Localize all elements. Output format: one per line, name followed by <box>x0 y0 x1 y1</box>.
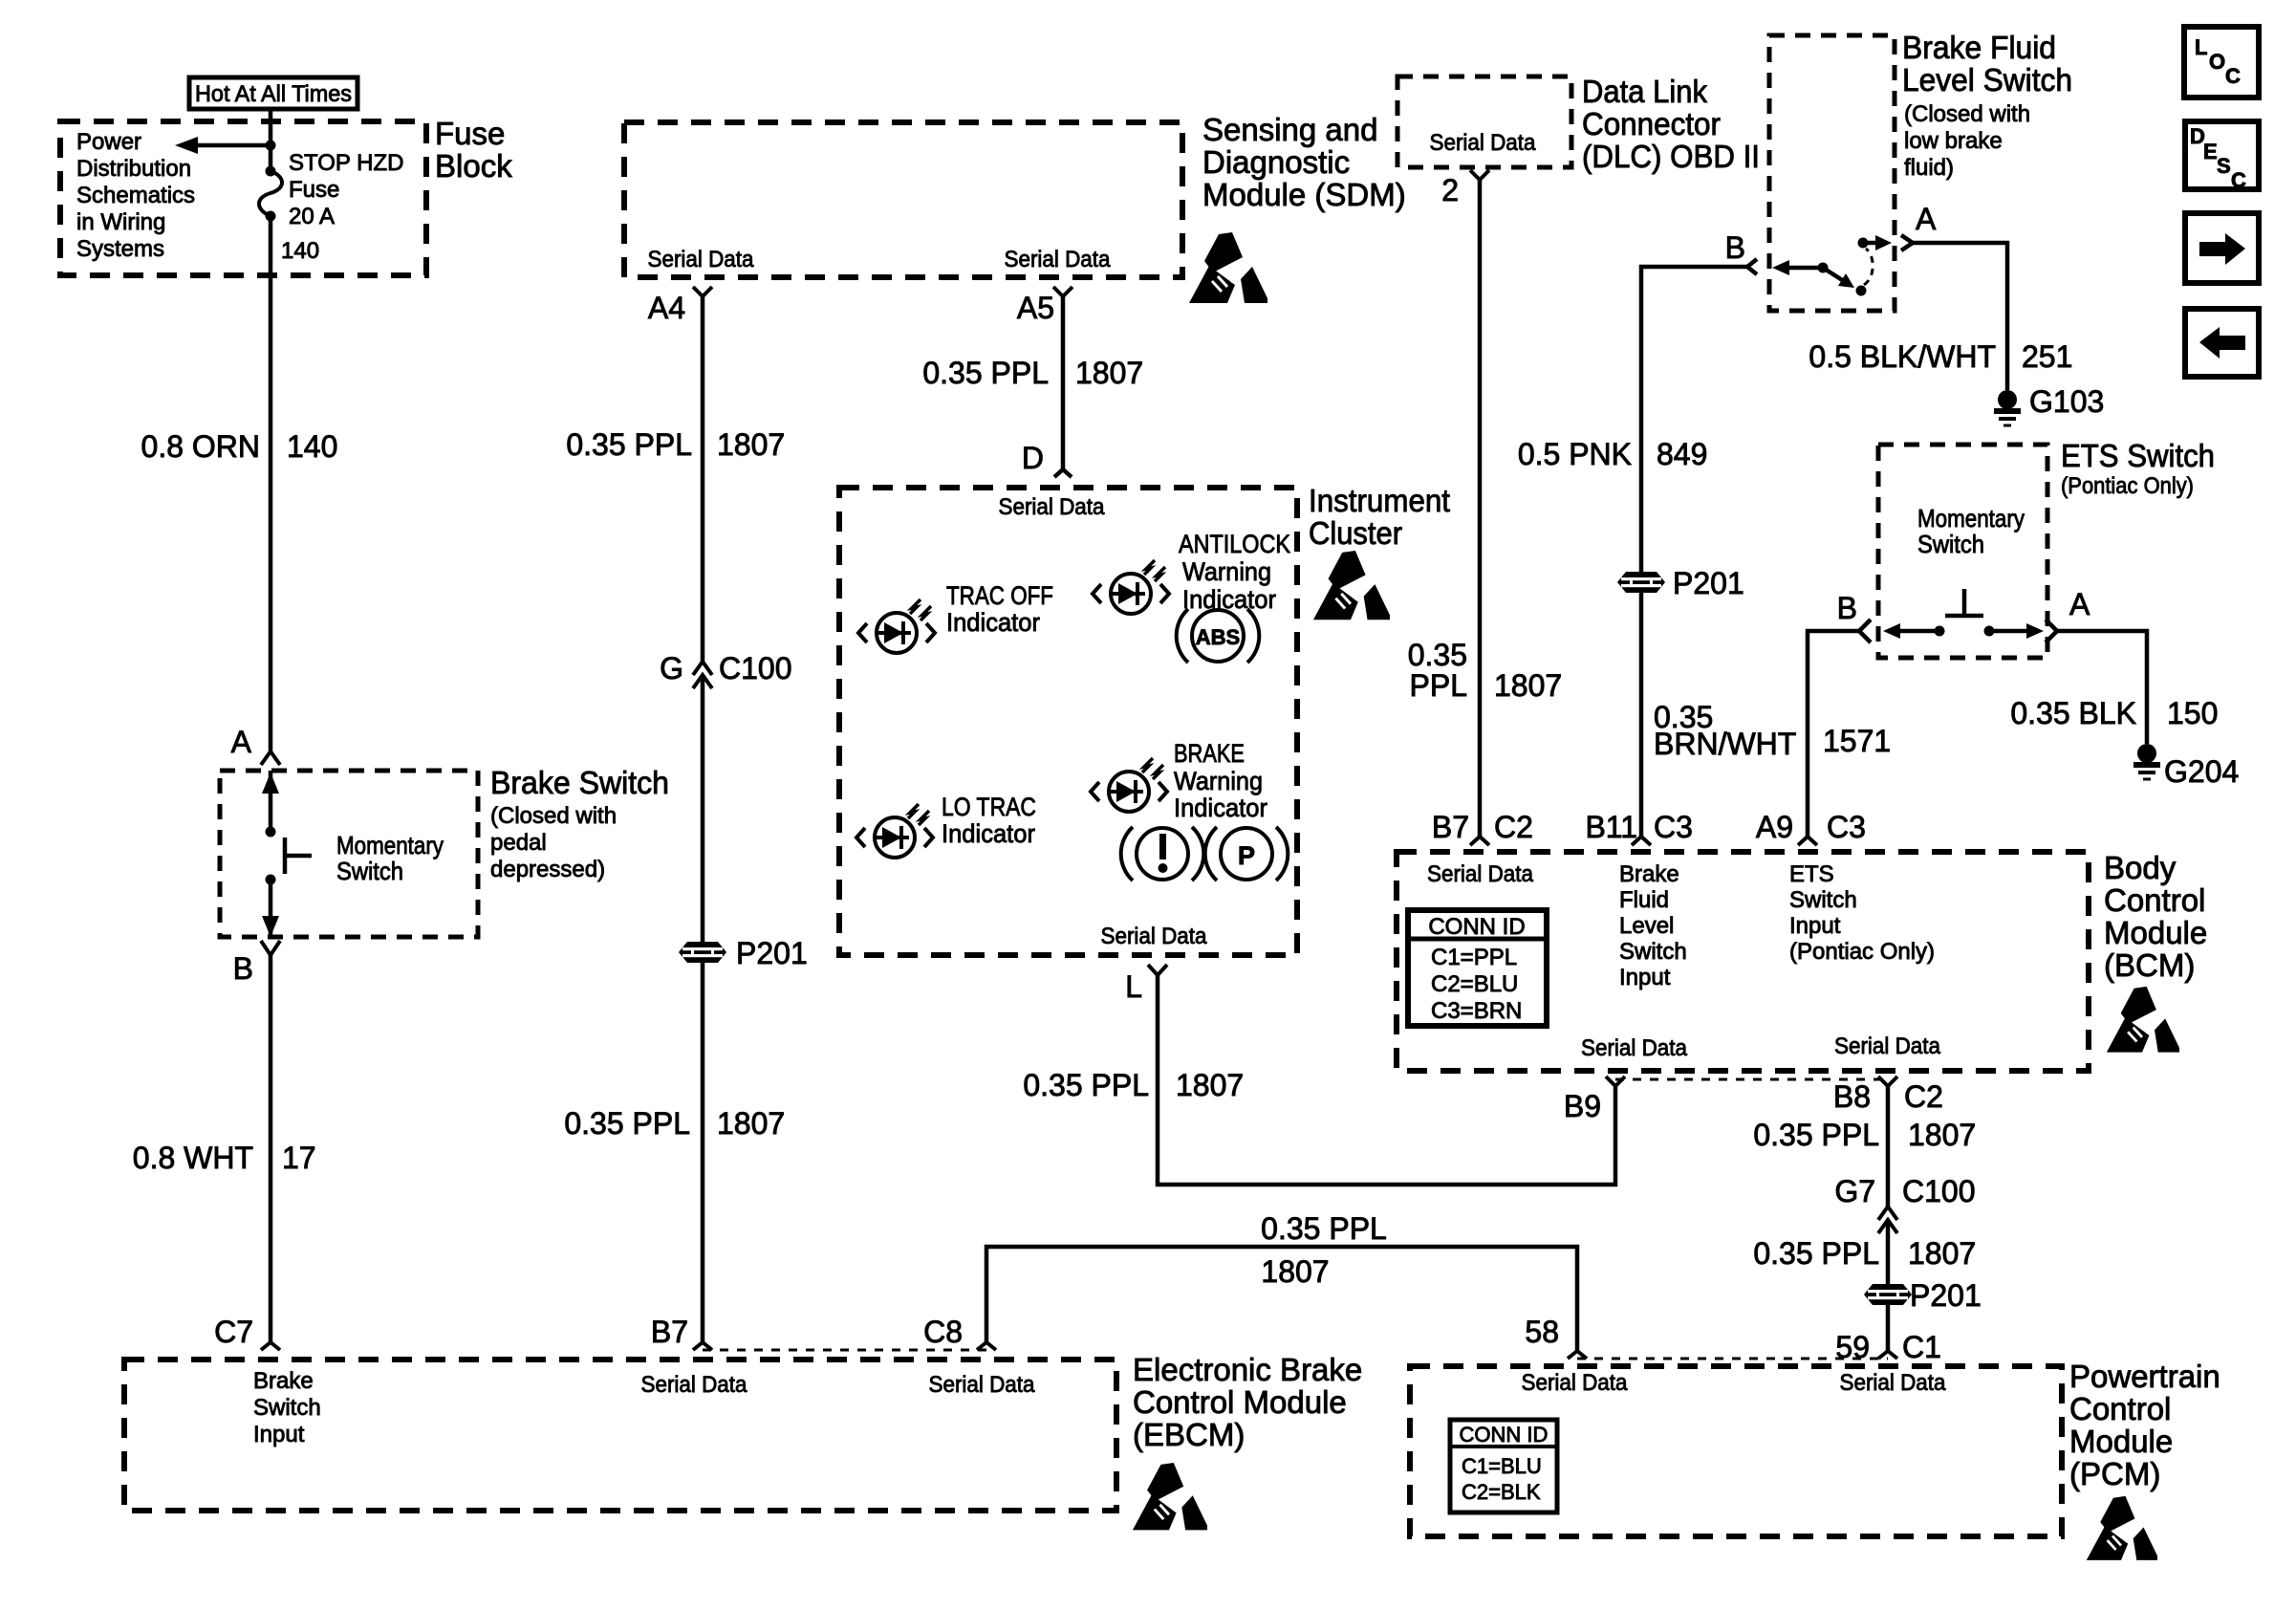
label: 0.35 PPL 1807 on DLC wire <box>1408 638 1562 703</box>
label: Body Control Module (BCM) <box>2104 850 2207 983</box>
pin A of ETS switch <box>2046 587 2090 642</box>
svg-text:G103: G103 <box>2029 384 2104 419</box>
svg-text:1807: 1807 <box>1494 668 1562 703</box>
svg-text:Serial Data: Serial Data <box>1834 1033 1941 1059</box>
svg-text:1807: 1807 <box>1908 1118 1976 1152</box>
internal serial data bus of BCM <box>1615 1078 1886 1081</box>
back arrow navigation icon <box>2185 309 2259 377</box>
svg-text:0.8 WHT: 0.8 WHT <box>133 1141 253 1175</box>
label: Powertrain Control Module (PCM) <box>2069 1359 2220 1491</box>
svg-text:0.35 PPL: 0.35 PPL <box>1753 1236 1879 1271</box>
svg-text:A: A <box>1916 202 1937 236</box>
svg-text:1807: 1807 <box>1261 1254 1329 1289</box>
svg-text:(EBCM): (EBCM) <box>1133 1417 1245 1452</box>
pin C7 of EBCM <box>214 1315 280 1350</box>
wire: 0.5 PNK 849 from level switch B to BCM pin B11 <box>1641 267 1747 837</box>
park brake telltale symbol <box>1205 827 1289 881</box>
CONN ID table of BCM <box>1408 910 1547 1026</box>
instrument cluster dashed box <box>839 488 1297 955</box>
svg-text:C7: C7 <box>214 1315 253 1349</box>
svg-text:A9: A9 <box>1756 810 1793 844</box>
svg-text:D: D <box>1022 441 1044 475</box>
svg-text:pedal: pedal <box>490 830 547 856</box>
wire: 0.35 PPL 1807 from SDM A4 to C100 <box>701 296 705 662</box>
label: 0.35 PPL 1807 below P201 <box>564 1106 785 1141</box>
pin B of ETS switch <box>1837 591 1871 642</box>
pin C8 of EBCM <box>923 1315 996 1350</box>
internal serial data bus of EBCM <box>703 1349 986 1352</box>
label: Brake Fluid Level Switch Input <box>1619 861 1687 990</box>
svg-text:Brake: Brake <box>1619 861 1679 887</box>
arrow to Power Distribution Schematics reference <box>175 137 271 154</box>
momentary contacts of ETS switch <box>1883 589 2044 639</box>
wire: 0.35 PPL 1807 from DLC pin 2 to BCM pin B7 <box>1478 180 1483 837</box>
svg-text:Distribution: Distribution <box>76 156 191 182</box>
label: 0.5 PNK 849 <box>1518 437 1708 471</box>
svg-text:C3: C3 <box>1827 810 1866 844</box>
pin A of brake switch <box>231 725 280 765</box>
label: ANTILOCK Warning Indicator <box>1179 530 1290 614</box>
pin A5 of SDM <box>1017 287 1072 325</box>
svg-text:Powertrain: Powertrain <box>2069 1359 2220 1394</box>
svg-text:Serial Data: Serial Data <box>648 247 755 272</box>
svg-text:O: O <box>2209 50 2225 74</box>
label: 0.35 PPL 1807 below B8 <box>1753 1118 1976 1152</box>
svg-text:Switch: Switch <box>1789 887 1857 913</box>
pin L of instrument cluster <box>1125 965 1167 1004</box>
svg-text:Input: Input <box>253 1422 305 1447</box>
DLC dashed box <box>1397 76 1571 167</box>
wire: 0.35 PPL 1807 from EBCM C8 to PCM pin 58 <box>986 1247 1577 1351</box>
svg-text:Indicator: Indicator <box>946 608 1040 637</box>
forward arrow navigation icon <box>2185 213 2259 283</box>
svg-text:Fluid: Fluid <box>1619 887 1669 913</box>
svg-text:Indicator: Indicator <box>1174 794 1267 822</box>
svg-text:B: B <box>233 951 253 986</box>
svg-text:Serial Data: Serial Data <box>1427 861 1534 887</box>
wire: 0.35 PPL 1807 from BCM B8 to C100 pin G7 <box>1886 1086 1891 1207</box>
svg-text:C: C <box>2225 64 2241 88</box>
svg-text:Level Switch: Level Switch <box>1902 62 2072 98</box>
label: TRAC OFF Indicator <box>946 581 1053 637</box>
label: 0.35 BLK 150 <box>2010 696 2218 730</box>
svg-text:0.35 PPL: 0.35 PPL <box>1023 1068 1149 1102</box>
ESD symbol for instrument cluster <box>1313 551 1390 620</box>
connector C100 pin G <box>660 651 791 688</box>
ESD symbol for SDM <box>1189 232 1267 303</box>
svg-text:(DLC) OBD II: (DLC) OBD II <box>1582 139 1760 174</box>
svg-text:L: L <box>2195 35 2207 59</box>
svg-text:Momentary: Momentary <box>336 831 444 859</box>
label: Brake Fluid Level Switch (Closed with low brake fluid) <box>1902 30 2072 181</box>
svg-text:1807: 1807 <box>1176 1068 1244 1102</box>
splice P201 on B8 wire <box>1864 1278 1982 1313</box>
svg-text:Serial Data: Serial Data <box>1005 247 1112 272</box>
svg-text:C3: C3 <box>1654 810 1693 844</box>
label: Data Link Connector (DLC) OBD II <box>1582 74 1760 174</box>
wire: 0.35 PPL 1807 from cluster L to BCM pin B9 <box>1158 975 1615 1185</box>
pin B7 C2 of BCM <box>1432 810 1533 845</box>
svg-text:ETS: ETS <box>1789 861 1834 887</box>
svg-text:1571: 1571 <box>1823 724 1891 758</box>
pin A4 of SDM <box>648 287 712 325</box>
label: Sensing and Diagnostic Module (SDM) <box>1202 112 1406 212</box>
junction node on battery feed <box>266 141 276 151</box>
pin B of brake fluid level switch <box>1725 230 1757 274</box>
svg-text:Switch: Switch <box>253 1395 321 1421</box>
svg-text:Warning: Warning <box>1174 767 1263 795</box>
svg-text:Serial Data: Serial Data <box>999 494 1106 520</box>
svg-text:B9: B9 <box>1564 1089 1601 1123</box>
svg-text:Cluster: Cluster <box>1309 515 1402 551</box>
svg-text:C8: C8 <box>923 1315 963 1349</box>
svg-text:E: E <box>2203 140 2218 163</box>
wire: 0.35 BLK 150 from ETS A to ground G204 <box>2057 631 2147 744</box>
momentary switch contacts in brake switch <box>262 771 312 937</box>
svg-text:Data Link: Data Link <box>1582 74 1707 109</box>
svg-text:Indicator: Indicator <box>1182 585 1276 614</box>
svg-text:0.35 PPL: 0.35 PPL <box>566 427 692 462</box>
label: 0.8 WHT 17 <box>133 1141 316 1175</box>
svg-text:C1: C1 <box>1902 1330 1941 1364</box>
wire: 0.35 PPL 1807 from C100 to PCM pin 59 <box>1886 1220 1891 1351</box>
ESD symbol for PCM <box>2087 1496 2157 1560</box>
label: ETS Switch (Pontiac Only) <box>2061 438 2215 499</box>
CONN ID table of PCM <box>1450 1420 1557 1512</box>
fuse block dashed box <box>60 121 426 275</box>
fuse F1 STOP HZD 20A <box>259 166 282 222</box>
brake fluid level switch dashed box <box>1769 35 1895 311</box>
wire: 0.35 PPL 1807 from SDM A5 to instrument cluster pin D <box>1061 296 1066 469</box>
svg-text:C1=BLU: C1=BLU <box>1462 1454 1542 1478</box>
label: 0.35 BRN/WHT 1571 <box>1654 700 1891 761</box>
label: 0.35 PPL 1807 on A5 wire <box>922 356 1143 390</box>
wire: 0.35 PPL 1807 from C100 to EBCM pin B7 <box>701 675 705 1342</box>
svg-text:Serial Data: Serial Data <box>1840 1370 1947 1396</box>
svg-text:C2=BLK: C2=BLK <box>1462 1480 1541 1504</box>
svg-text:G: G <box>660 651 683 685</box>
svg-text:Module: Module <box>2069 1424 2173 1459</box>
svg-text:depressed): depressed) <box>490 857 605 882</box>
svg-text:STOP HZD: STOP HZD <box>289 150 403 176</box>
label: Power Distribution Schematics in Wiring Systems <box>76 129 195 262</box>
svg-text:C100: C100 <box>1902 1174 1976 1208</box>
svg-text:C100: C100 <box>719 651 792 685</box>
LO TRAC indicator LED <box>856 804 933 858</box>
svg-text:0.35 BLK: 0.35 BLK <box>2010 696 2136 730</box>
pin 2 of DLC <box>1441 170 1489 207</box>
svg-text:140: 140 <box>287 429 337 464</box>
svg-text:BRAKE: BRAKE <box>1174 739 1245 768</box>
svg-text:Switch: Switch <box>336 857 403 885</box>
svg-text:Serial Data: Serial Data <box>641 1372 748 1398</box>
label: BRAKE Warning Indicator <box>1174 739 1267 822</box>
label: Brake Switch Input at EBCM C7 <box>253 1368 321 1447</box>
ESD symbol for BCM <box>2107 987 2179 1053</box>
label: 0.35 PPL 1807 above P201 <box>1753 1236 1976 1271</box>
svg-text:Control: Control <box>2104 882 2205 918</box>
splice P201 on PNK wire <box>1617 566 1744 600</box>
svg-text:Serial Data: Serial Data <box>1430 130 1537 156</box>
svg-text:Fuse: Fuse <box>435 116 505 151</box>
svg-text:Input: Input <box>1619 965 1671 990</box>
label: 0.35 PPL 1807 on A4 wire <box>566 427 785 462</box>
svg-text:0.35 PPL: 0.35 PPL <box>922 356 1049 390</box>
BRAKE warning indicator LED <box>1091 758 1167 812</box>
svg-text:Block: Block <box>435 148 512 184</box>
pin 58 of PCM <box>1525 1315 1587 1359</box>
svg-text:Indicator: Indicator <box>942 819 1035 848</box>
svg-text:ETS Switch: ETS Switch <box>2061 438 2215 473</box>
svg-text:Systems: Systems <box>76 236 164 262</box>
svg-text:150: 150 <box>2167 696 2218 730</box>
svg-text:low brake: low brake <box>1904 128 2003 154</box>
label: STOP HZD Fuse 20 A <box>289 150 403 229</box>
pin B9 of BCM <box>1564 1077 1625 1123</box>
svg-text:TRAC OFF: TRAC OFF <box>946 581 1053 610</box>
svg-text:(Pontiac Only): (Pontiac Only) <box>1789 939 1935 965</box>
svg-text:Brake Fluid: Brake Fluid <box>1902 30 2056 65</box>
svg-text:251: 251 <box>2022 339 2072 374</box>
svg-text:1807: 1807 <box>1075 356 1143 390</box>
connector C100 pin G7 <box>1834 1174 1975 1233</box>
svg-text:0.35: 0.35 <box>1408 638 1467 672</box>
svg-text:Electronic Brake: Electronic Brake <box>1133 1352 1362 1387</box>
pin B7 of EBCM <box>651 1315 712 1350</box>
svg-text:Input: Input <box>1789 913 1841 939</box>
svg-text:Control Module: Control Module <box>1133 1384 1347 1420</box>
PCM dashed box <box>1410 1366 2062 1536</box>
svg-text:fluid): fluid) <box>1904 155 1954 181</box>
wire: 0.8 WHT 17 from brake switch to EBCM pin C7 <box>269 955 273 1342</box>
svg-text:(Pontiac Only): (Pontiac Only) <box>2061 473 2194 499</box>
pin D of instrument cluster <box>1022 441 1072 477</box>
label: 0.8 ORN 140 <box>141 429 338 464</box>
svg-text:1807: 1807 <box>717 1106 785 1141</box>
svg-text:ABS: ABS <box>1196 625 1240 649</box>
label: 0.35 PPL 1807 on C8 wire <box>1261 1211 1387 1289</box>
label: ETS Switch Input (Pontiac Only) <box>1789 861 1935 965</box>
ground G103 <box>1994 384 2104 425</box>
ESD symbol for EBCM <box>1133 1463 1207 1530</box>
svg-text:C3=BRN: C3=BRN <box>1431 998 1522 1024</box>
BCM dashed box <box>1397 852 2089 1071</box>
brake telltale symbol <box>1121 827 1204 881</box>
svg-text:LO TRAC: LO TRAC <box>942 793 1036 821</box>
svg-text:Brake: Brake <box>253 1368 314 1394</box>
svg-text:2: 2 <box>1441 173 1459 207</box>
label: 0.5 BLK/WHT 251 <box>1809 339 2072 374</box>
svg-text:B7: B7 <box>1432 810 1469 844</box>
svg-text:17: 17 <box>282 1141 316 1175</box>
svg-text:B11: B11 <box>1585 810 1637 844</box>
svg-text:Control: Control <box>2069 1391 2171 1426</box>
svg-text:Fuse: Fuse <box>289 177 339 203</box>
ANTILOCK warning indicator LED <box>1093 560 1169 614</box>
label: Instrument Cluster <box>1309 483 1450 551</box>
svg-text:1807: 1807 <box>1908 1236 1976 1271</box>
label: Momentary Switch in ETS switch <box>1917 504 2025 558</box>
svg-text:Switch: Switch <box>1917 530 1984 558</box>
svg-text:Module (SDM): Module (SDM) <box>1202 177 1406 212</box>
svg-text:Momentary: Momentary <box>1917 504 2025 533</box>
ABS telltale symbol <box>1177 609 1260 663</box>
svg-text:Warning: Warning <box>1182 557 1271 586</box>
svg-text:0.35 PPL: 0.35 PPL <box>1753 1118 1879 1152</box>
svg-text:A: A <box>231 725 252 759</box>
svg-text:Serial Data: Serial Data <box>929 1372 1036 1398</box>
svg-text:C2: C2 <box>1494 810 1533 844</box>
svg-text:20 A: 20 A <box>289 204 335 229</box>
ETS switch dashed box <box>1878 445 2047 658</box>
svg-text:0.5 PNK: 0.5 PNK <box>1518 437 1632 471</box>
svg-text:B8: B8 <box>1833 1079 1871 1114</box>
svg-text:G204: G204 <box>2164 754 2239 789</box>
svg-text:Hot At All Times: Hot At All Times <box>195 81 352 107</box>
svg-text:1807: 1807 <box>717 427 785 462</box>
svg-text:C2: C2 <box>1904 1079 1943 1114</box>
svg-text:Serial Data: Serial Data <box>1522 1370 1629 1396</box>
svg-text:0.8 ORN: 0.8 ORN <box>141 429 260 464</box>
svg-text:Sensing and: Sensing and <box>1202 112 1377 147</box>
svg-text:140: 140 <box>281 238 319 264</box>
svg-text:Diagnostic: Diagnostic <box>1202 144 1350 180</box>
label: Electronic Brake Control Module (EBCM) <box>1133 1352 1362 1452</box>
svg-text:CONN ID: CONN ID <box>1428 914 1525 940</box>
wire: 0.5 BLK/WHT 251 from level switch A to ground G103 <box>1913 243 2007 390</box>
pin A of brake fluid level switch <box>1901 202 1937 250</box>
svg-text:0.35 PPL: 0.35 PPL <box>564 1106 690 1141</box>
svg-text:(Closed with: (Closed with <box>490 803 617 829</box>
svg-text:Serial Data: Serial Data <box>1101 924 1208 949</box>
splice P201 on A4 wire <box>679 936 808 970</box>
pin B11 C3 of BCM <box>1585 810 1692 845</box>
svg-text:A5: A5 <box>1017 291 1054 325</box>
svg-text:P: P <box>1238 841 1255 870</box>
svg-text:Module: Module <box>2104 915 2207 950</box>
svg-text:CONN ID: CONN ID <box>1460 1423 1549 1447</box>
svg-text:S: S <box>2217 154 2231 178</box>
label: Momentary Switch <box>336 831 444 885</box>
switch blade contacts of brake fluid level switch <box>1772 235 1892 296</box>
label: Fuse Block <box>435 116 512 184</box>
svg-text:58: 58 <box>1525 1315 1559 1349</box>
svg-text:ANTILOCK: ANTILOCK <box>1179 530 1290 558</box>
svg-text:Serial Data: Serial Data <box>1581 1035 1688 1061</box>
label: Hot At All Times <box>189 77 357 109</box>
svg-text:(Closed with: (Closed with <box>1904 101 2030 127</box>
svg-text:B: B <box>1837 591 1857 625</box>
wire: battery feed from Hot At All Times into fuse block <box>269 107 273 171</box>
pin B8 C2 of BCM <box>1833 1077 1943 1114</box>
svg-text:C1=PPL: C1=PPL <box>1431 945 1517 970</box>
svg-text:(PCM): (PCM) <box>2069 1456 2160 1491</box>
svg-text:G7: G7 <box>1834 1174 1875 1208</box>
svg-text:in Wiring: in Wiring <box>76 209 165 235</box>
wire: 0.35 BRN/WHT 1571 from ETS B to BCM pin A9 <box>1808 631 1859 837</box>
svg-text:P201: P201 <box>1910 1278 1982 1313</box>
svg-text:BRN/WHT: BRN/WHT <box>1654 727 1796 761</box>
internal serial data bus of PCM <box>1577 1358 1888 1360</box>
svg-text:Connector: Connector <box>1582 106 1721 141</box>
svg-text:Body: Body <box>2104 850 2177 885</box>
svg-text:L: L <box>1125 969 1142 1004</box>
svg-text:C: C <box>2231 168 2246 192</box>
wire: 0.8 ORN 140 from fuse to brake switch pin A <box>269 216 273 751</box>
svg-text:P201: P201 <box>1673 566 1744 600</box>
svg-text:Level: Level <box>1619 913 1674 939</box>
TRAC OFF indicator LED <box>858 599 935 653</box>
svg-text:0.5 BLK/WHT: 0.5 BLK/WHT <box>1809 339 1996 374</box>
brake switch S1 dashed box <box>220 771 478 937</box>
svg-text:B: B <box>1725 230 1745 265</box>
pin A9 C3 of BCM <box>1756 810 1866 845</box>
svg-text:PPL: PPL <box>1410 668 1467 703</box>
svg-text:Schematics: Schematics <box>76 183 195 208</box>
label: 0.35 PPL 1807 on L wire <box>1023 1068 1244 1102</box>
EBCM dashed box <box>124 1360 1116 1511</box>
svg-text:A: A <box>2069 587 2090 621</box>
svg-text:Instrument: Instrument <box>1309 483 1450 518</box>
svg-text:A4: A4 <box>648 291 685 325</box>
svg-text:P201: P201 <box>736 936 808 970</box>
pin 59 C1 of PCM <box>1835 1330 1941 1364</box>
pin B of brake switch <box>233 941 280 986</box>
svg-text:(BCM): (BCM) <box>2104 947 2195 983</box>
svg-text:C2=BLU: C2=BLU <box>1431 971 1518 997</box>
SDM dashed box <box>624 122 1182 277</box>
LOC navigation icon <box>2184 27 2259 98</box>
ground G204 <box>2134 744 2239 789</box>
DESC navigation icon <box>2185 121 2259 192</box>
label: LO TRAC Indicator <box>942 793 1036 848</box>
svg-text:B7: B7 <box>651 1315 688 1349</box>
svg-text:Brake Switch: Brake Switch <box>490 765 669 800</box>
svg-text:849: 849 <box>1657 437 1707 471</box>
svg-text:Switch: Switch <box>1619 939 1687 965</box>
svg-text:0.35 PPL: 0.35 PPL <box>1261 1211 1387 1246</box>
label: Brake Switch (Closed with pedal depressed) <box>490 765 669 882</box>
svg-text:Power: Power <box>76 129 141 155</box>
